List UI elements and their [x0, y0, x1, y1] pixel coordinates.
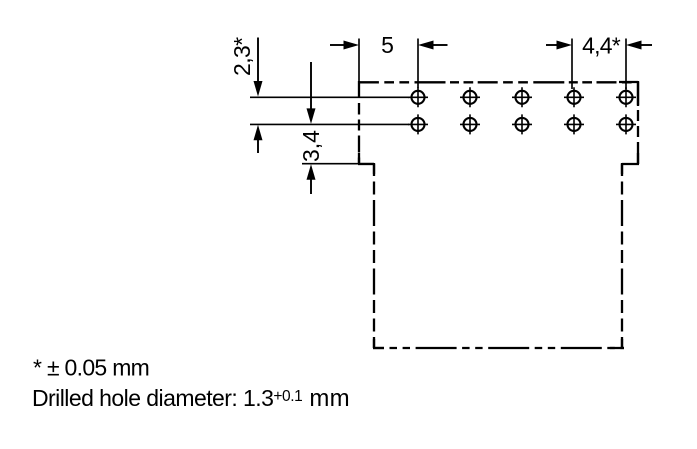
ext line hole row 2 [250, 123, 409, 125]
ext line step edge [302, 163, 374, 165]
dimension labels [229, 32, 621, 162]
wire left step [358, 163, 374, 165]
ext line hole col 4 (dim 4,4) [571, 39, 573, 90]
svg-text:3,4: 3,4 [298, 130, 324, 162]
svg-text:Drilled hole diameter: 1.3+0.1: Drilled hole diameter: 1.3+0.1 mm [32, 385, 350, 412]
hole row2 col2 [460, 114, 480, 134]
dimension extension lines (thin) [250, 39, 626, 164]
dimension arrows [254, 38, 653, 195]
svg-text:4,4*: 4,4* [582, 33, 621, 59]
hole row1 col4 [564, 87, 584, 107]
hole row2 col3 [512, 114, 532, 134]
arrow dim 2,3 up [257, 139, 259, 153]
arrow dim 5 right [432, 44, 448, 46]
hole row1 col5 [616, 87, 636, 107]
wire right step [622, 163, 639, 165]
wire right lower edge [621, 163, 623, 348]
wire right upper edge [637, 81, 639, 164]
svg-text:* ± 0.05 mm: * ± 0.05 mm [33, 355, 149, 381]
svg-text:5: 5 [381, 32, 394, 58]
arrow dim 2,3 down [257, 38, 259, 84]
wire top edge [359, 81, 638, 83]
hole row1 col1 [408, 87, 428, 107]
svg-text:2,3*: 2,3* [229, 37, 255, 76]
ext line hole col 1 (dim 5) [417, 39, 419, 89]
wire left upper edge [358, 81, 360, 164]
drilled holes grid 2 rows x 5 cols [408, 87, 636, 134]
hole row2 col4 [564, 114, 584, 134]
connector body outline (phantom dashed) [358, 81, 639, 348]
ext line hole row 1 [250, 96, 409, 98]
hole row1 col2 [460, 87, 480, 107]
arrow dim 4,4 left [546, 44, 558, 46]
arrow dim 3,4 down [310, 62, 312, 109]
wire left lower edge [373, 163, 375, 348]
ext line hole col 5 (dim 4,4) [625, 39, 627, 90]
hole row1 col3 [512, 87, 532, 107]
arrow dim 4,4 right [640, 44, 652, 46]
hole row2 col1 [408, 114, 428, 134]
wire bottom edge [373, 347, 624, 349]
arrow dim 3,4 up [310, 179, 312, 194]
hole row2 col5 [616, 114, 636, 134]
ext line left body edge (dim 5) [358, 39, 360, 83]
wire corner caps to keep corners solid [359, 82, 638, 348]
arrow dim 5 left [330, 44, 345, 46]
